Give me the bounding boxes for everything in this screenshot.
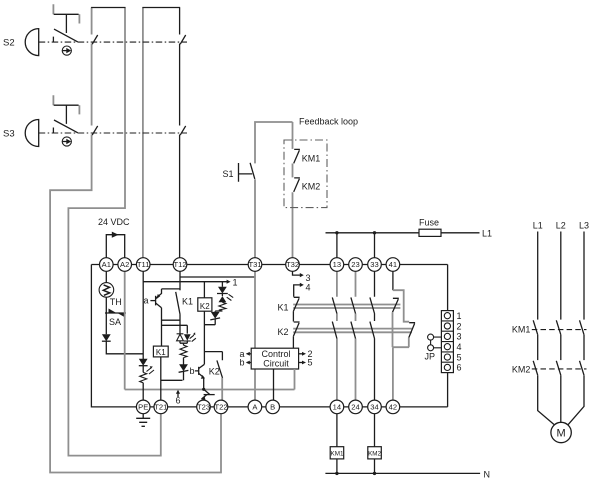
terminal T32	[286, 258, 300, 272]
wire monitor to control box	[292, 336, 294, 348]
svg-text:24: 24	[351, 403, 359, 412]
wire KM2 to motor centre	[560, 375, 562, 422]
svg-text:K1: K1	[156, 348, 166, 357]
pushbutton S3 contact arm	[53, 120, 77, 133]
contact S2 channel1 (NC)	[92, 35, 98, 44]
wire column 41 top	[392, 265, 394, 291]
wire A1 internal	[106, 265, 143, 354]
wire phase L1	[537, 232, 539, 320]
relay coil K2	[198, 298, 212, 311]
svg-text:S1: S1	[223, 169, 234, 179]
wire KM2 to motor left	[538, 375, 555, 425]
svg-text:KM1: KM1	[302, 154, 321, 164]
JP pin circles	[444, 313, 450, 319]
contact K1 pole 33 (NO)	[370, 297, 375, 313]
svg-text:Circuit: Circuit	[263, 358, 289, 368]
svg-text:6: 6	[176, 396, 181, 406]
wire net 6 bus	[125, 389, 295, 391]
wire KM2 coil to N	[374, 459, 376, 474]
terminal 41	[386, 258, 400, 272]
svg-text:a: a	[144, 296, 149, 306]
wire Q-a emitter node	[162, 308, 188, 346]
svg-text:T11: T11	[137, 260, 150, 269]
pushbutton S3 mushroom head	[25, 120, 39, 147]
wire column 13-14	[336, 265, 338, 401]
wire phase L2	[560, 232, 562, 320]
contact K2 pole 13 (NO)	[332, 322, 337, 339]
svg-text:A1: A1	[102, 260, 111, 269]
svg-text:KM1: KM1	[331, 450, 344, 457]
wire T32 internal / pin 3 arrow	[293, 265, 301, 276]
terminal 42	[386, 400, 400, 414]
wire T12 branch to T31/A column	[180, 276, 255, 278]
contactor coil KM2	[368, 447, 382, 459]
wire interpole L1	[537, 335, 539, 360]
svg-text:B: B	[270, 403, 275, 412]
terminal 13	[330, 258, 344, 272]
wire T12 internal	[179, 265, 181, 291]
wire T12 chain	[180, 341, 187, 381]
wire column 23-24	[355, 265, 357, 401]
diode D1 (A1 chain)	[102, 334, 111, 341]
KM2 linkage (dashed)	[532, 368, 587, 370]
wire K1 coil to T21	[160, 357, 162, 400]
pushbutton S1 actuator	[239, 163, 253, 182]
wire 24VDC loop A1-A2	[106, 235, 124, 258]
svg-text:KM2: KM2	[368, 450, 381, 457]
pushbutton S3 mechanical link (dash-dot)	[39, 132, 187, 134]
junction KM1-N	[335, 472, 338, 475]
ground symbol (PE)	[136, 414, 150, 427]
svg-text:Control: Control	[261, 349, 290, 359]
svg-text:N: N	[484, 470, 491, 480]
resistor R2 (T12 chain)	[180, 345, 187, 357]
pushbutton S2 mushroom head	[25, 29, 38, 56]
wire T21 branch to diode chain	[161, 379, 183, 381]
pushbutton S3 direct-opening symbol	[62, 137, 71, 146]
junction KM2-N	[373, 472, 376, 475]
svg-text:KM2: KM2	[302, 182, 321, 192]
wire channel2 left (T11 riser)	[142, 8, 144, 259]
svg-text:42: 42	[389, 403, 397, 412]
wire T11 internal	[142, 265, 144, 401]
relay coil K1	[153, 346, 168, 357]
svg-text:S3: S3	[3, 129, 15, 140]
junction bus-33	[373, 231, 376, 234]
pin 1 arrow	[227, 280, 231, 284]
svg-text:SA: SA	[109, 317, 121, 327]
svg-text:33: 33	[370, 260, 378, 269]
svg-text:T22: T22	[214, 403, 227, 412]
junction bus-13	[335, 231, 338, 234]
contactor coil KM1	[330, 447, 344, 459]
contact K1 monitor (NO)	[176, 292, 180, 334]
terminal T12	[173, 258, 187, 272]
svg-text:KM1: KM1	[512, 325, 531, 335]
wire 14 to KM1 coil	[336, 414, 338, 447]
contactor KM1 power contacts (3x NO)	[533, 320, 584, 334]
wire 41 bypass jog	[393, 290, 409, 322]
svg-text:b: b	[190, 366, 195, 376]
svg-text:13: 13	[333, 260, 341, 269]
svg-text:JP: JP	[425, 352, 436, 362]
wire control box to B	[273, 369, 275, 400]
fuse F1	[419, 229, 441, 236]
svg-text:5: 5	[308, 358, 313, 368]
JP jumper link	[428, 334, 434, 340]
terminal 33	[368, 258, 382, 272]
wire channel2 right (through S2/S3 contacts to T12)	[179, 8, 181, 259]
wire channel1 right (loop top to T21)	[68, 8, 160, 456]
wire interpole L3	[583, 335, 585, 360]
wire channel1 top edge	[91, 7, 125, 9]
contact KM1 feedback (NC)	[294, 149, 300, 163]
terminal A2	[118, 258, 132, 272]
svg-text:41: 41	[389, 260, 397, 269]
svg-text:5: 5	[457, 352, 462, 362]
contactor KM2 power contacts (3x NO)	[533, 361, 584, 375]
polarity marker	[112, 232, 119, 238]
terminal 34	[368, 400, 382, 414]
wire 41 column mid	[392, 312, 394, 347]
wire T11 branch to pin 1	[143, 281, 227, 283]
svg-text:K2: K2	[200, 302, 210, 311]
terminal T31	[248, 258, 262, 272]
pushbutton S3 actuator bracket	[53, 95, 79, 114]
junction Q-b emitter / net 6	[202, 388, 205, 391]
terminal A1	[100, 258, 114, 272]
contact KM2 feedback (NC)	[294, 178, 300, 192]
wire bypass to 42	[393, 338, 409, 401]
jumper block JP	[441, 311, 453, 373]
svg-text:T32: T32	[286, 260, 299, 269]
terminal 24	[349, 400, 363, 414]
KM1 linkage (dashed)	[532, 329, 587, 331]
control circuit box U1	[251, 348, 298, 369]
feedback box (dash-dot)	[284, 140, 327, 208]
wire N line	[325, 472, 480, 474]
thermistor TH	[99, 283, 114, 298]
LED indicator (pin1 chain)	[218, 287, 227, 294]
wire Q-a collector to T12 column	[162, 288, 181, 290]
svg-text:K1: K1	[182, 297, 193, 307]
wire interpole L2	[560, 335, 562, 360]
svg-text:4: 4	[457, 342, 462, 352]
terminal B	[266, 400, 280, 414]
terminal 23	[349, 258, 363, 272]
contact S2 channel2 (NC)	[180, 35, 186, 44]
svg-text:14: 14	[333, 403, 341, 412]
contact K1 monitor T32 (NC)	[293, 297, 299, 311]
terminal T11	[136, 258, 150, 272]
wire T31 riser with S1 gap	[255, 122, 293, 258]
resistor R1 (T11 chain)	[140, 372, 147, 382]
svg-text:1: 1	[457, 311, 462, 321]
mechanical linkage K1 row	[293, 305, 400, 309]
svg-text:S2: S2	[3, 38, 15, 49]
contact K1 pole 13 (NO)	[332, 297, 337, 313]
svg-text:4: 4	[306, 282, 311, 292]
svg-text:6: 6	[457, 363, 462, 373]
wire T32 riser with KM1/KM2 gaps	[292, 122, 294, 258]
svg-text:T21: T21	[154, 403, 167, 412]
contact K2 monitor T32 (NC)	[293, 322, 299, 336]
wire tap to K2 coil	[203, 282, 205, 298]
output 5 arrow	[299, 362, 303, 364]
pin 6 arrow	[177, 394, 179, 398]
svg-text:T23: T23	[197, 403, 210, 412]
terminal T21	[154, 400, 168, 414]
svg-text:1: 1	[233, 277, 238, 287]
wire T31 to A (behind control box)	[254, 265, 256, 401]
pushbutton S2 direct-opening symbol	[62, 46, 71, 55]
pushbutton S2 mechanical link (dash-dot)	[39, 41, 187, 43]
surge absorber SA	[105, 312, 126, 314]
svg-text:PE: PE	[138, 403, 148, 412]
contact S1 (NO)	[250, 163, 255, 179]
LED indicator (T11 chain)	[139, 359, 148, 366]
wire between monitor contacts	[292, 311, 294, 321]
svg-text:TH: TH	[110, 297, 122, 307]
resistor R3 (pin1 chain)	[219, 302, 226, 311]
terminal A	[248, 400, 262, 414]
pin 4 arrow stub	[294, 285, 301, 297]
svg-text:KM2: KM2	[512, 364, 531, 374]
contact K1 pole 23 (NO)	[351, 297, 356, 313]
output 2 arrow	[299, 353, 303, 355]
svg-text:3: 3	[457, 332, 462, 342]
contact K1 pole 41 (NC)	[393, 298, 399, 312]
relay outline	[91, 265, 447, 407]
pushbutton S3 actuator T-bar	[54, 105, 79, 124]
svg-text:Fuse: Fuse	[419, 218, 439, 228]
diode D2 (T12 chain)	[179, 364, 188, 371]
mechanical linkage K2 row	[293, 329, 412, 333]
LED pair (T12 chain, anti-parallel)	[177, 334, 184, 341]
motor M1	[551, 422, 571, 442]
svg-text:24 VDC: 24 VDC	[98, 217, 130, 227]
wire pin1 chain jog	[215, 310, 222, 313]
svg-text:3: 3	[306, 273, 311, 283]
svg-text:34: 34	[370, 403, 378, 412]
svg-text:T12: T12	[173, 260, 186, 269]
svg-text:L3: L3	[579, 221, 589, 231]
svg-text:L1: L1	[482, 229, 492, 239]
svg-text:b: b	[240, 358, 245, 368]
terminal 14	[330, 400, 344, 414]
contact K2 pole 33 (NO)	[370, 322, 375, 339]
pushbutton S2 actuator T-bar	[54, 14, 79, 33]
svg-text:A2: A2	[120, 260, 129, 269]
svg-text:K2: K2	[209, 367, 220, 377]
wire A2 internal (to net 6)	[124, 265, 126, 390]
wire column 33-34	[374, 265, 376, 401]
wire tap to LED chain (pin1 node)	[221, 282, 223, 287]
pushbutton S2 contact arm	[53, 29, 77, 42]
terminal T23	[197, 400, 211, 414]
pushbutton S2 actuator bracket	[53, 4, 79, 23]
terminal T22	[214, 400, 228, 414]
svg-text:Feedback loop: Feedback loop	[299, 117, 358, 127]
diode D3 (pin1 chain)	[211, 312, 220, 319]
svg-text:L2: L2	[556, 221, 566, 231]
svg-text:23: 23	[351, 260, 359, 269]
wire bus to 33	[374, 233, 376, 258]
svg-text:L1: L1	[533, 221, 543, 231]
wire channel1 left (S2/S3 contacts to T22)	[50, 8, 221, 473]
wire K2 coil bottom column	[204, 311, 222, 364]
svg-text:M: M	[557, 428, 566, 440]
wire channel2 top edge	[142, 7, 180, 9]
terminal PE	[136, 400, 150, 414]
wire KM2 to motor right	[568, 375, 584, 424]
wire control box to net 6	[294, 369, 296, 390]
wire L1 bus	[326, 232, 480, 234]
contact K2 pole 41 (NC)	[409, 323, 415, 338]
contact K2 pole 23 (NO)	[351, 322, 356, 339]
svg-text:K2: K2	[278, 327, 289, 337]
contact K2 output (NO, to T22)	[217, 360, 223, 378]
wire 34 to KM2 coil	[374, 414, 376, 447]
contact S3 channel1 (NC)	[92, 126, 98, 135]
svg-text:T31: T31	[248, 260, 261, 269]
contact S3 channel2 (NC)	[180, 126, 186, 135]
wire phase L3	[583, 232, 585, 320]
svg-text:2: 2	[457, 321, 462, 331]
wire KM1 coil to N	[336, 459, 338, 474]
svg-text:K1: K1	[278, 303, 289, 313]
wire bus to 13	[336, 233, 338, 258]
transistor Q-c (T23)	[204, 394, 215, 396]
